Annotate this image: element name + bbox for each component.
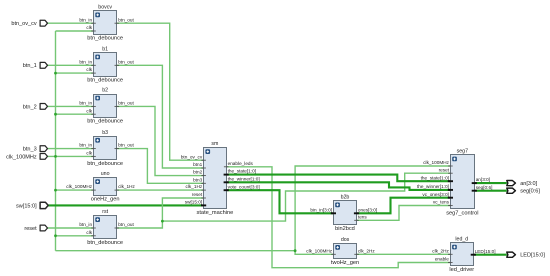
input port btn_ov_cv bbox=[11, 20, 47, 27]
svg-text:btn_debounce: btn_debounce bbox=[87, 77, 123, 83]
b3 pin btn_in bbox=[79, 143, 95, 149]
svg-text:btn_in: btn_in bbox=[79, 17, 92, 22]
svg-text:led_driver: led_driver bbox=[449, 267, 474, 273]
svg-text:btn_1: btn_1 bbox=[23, 63, 37, 69]
sm pin the_state[1:0] bbox=[224, 169, 256, 175]
input port clk_100MHz bbox=[6, 154, 47, 161]
svg-text:clk_2Hz: clk_2Hz bbox=[432, 248, 449, 253]
block dos (twoHz_gen) bbox=[334, 244, 357, 259]
seg7 pin the_winner[1:0] bbox=[417, 184, 453, 190]
svg-text:btn_in: btn_in bbox=[79, 101, 92, 106]
svg-text:an[3:0]: an[3:0] bbox=[520, 181, 537, 187]
svg-text:sw[15:0]: sw[15:0] bbox=[185, 200, 202, 205]
svg-text:btn_debounce: btn_debounce bbox=[87, 161, 123, 167]
svg-text:btn_out: btn_out bbox=[118, 101, 134, 106]
svg-text:LED[15:0]: LED[15:0] bbox=[520, 253, 545, 259]
rst expand icon bbox=[95, 217, 100, 222]
b3 pin clk bbox=[86, 151, 95, 157]
svg-text:b1: b1 bbox=[102, 46, 108, 52]
input port btn_1 bbox=[23, 62, 48, 69]
wire net btn_1: input port to b1 btn_in bbox=[48, 64, 94, 66]
bovcv pin btn_out bbox=[115, 17, 135, 23]
output port an[3:0] bbox=[507, 181, 538, 187]
svg-text:btn_debounce: btn_debounce bbox=[87, 119, 123, 125]
sm pin sw[15:0] bbox=[185, 200, 206, 206]
bus net LED[15:0]: led_d to output port bbox=[473, 254, 507, 256]
dos pin clk_100MHz bbox=[306, 248, 335, 254]
svg-text:rst: rst bbox=[102, 209, 108, 215]
svg-text:seg7_control: seg7_control bbox=[446, 210, 478, 216]
svg-text:btn_in: btn_in bbox=[79, 222, 92, 227]
sm pin the_winner[1:0] bbox=[224, 176, 260, 182]
b2b expand icon bbox=[335, 203, 340, 208]
block uno (oneHz_gen) bbox=[94, 178, 117, 196]
block led_d (led_driver) bbox=[451, 243, 474, 266]
wire net clk_100MHz: branch to b1 clk bbox=[56, 72, 94, 74]
block seg7 (seg7_control) bbox=[451, 155, 475, 209]
junction rst_out branch bbox=[161, 220, 164, 223]
junction clk_100MHz at seg7/dos riser bbox=[294, 249, 297, 252]
svg-text:btn_out: btn_out bbox=[118, 143, 134, 148]
svg-text:clk_1Hz: clk_1Hz bbox=[186, 184, 203, 189]
sm pin enable_leds bbox=[224, 161, 254, 167]
uno pin clk_1Hz bbox=[115, 184, 136, 190]
wire net b2_out: b2 btn_out to sm btn2 bbox=[117, 106, 204, 175]
led_d pin LED[15:0] bbox=[471, 249, 496, 255]
svg-text:clk_1Hz: clk_1Hz bbox=[118, 184, 135, 189]
b1 pin btn_out bbox=[115, 59, 135, 65]
b1 expand icon bbox=[95, 55, 100, 60]
bus net an[3:0]: seg7 to output port bbox=[474, 182, 507, 184]
svg-text:clk_100MHz: clk_100MHz bbox=[66, 184, 92, 189]
wire net clk_100MHz: branch to rst clk bbox=[56, 235, 94, 237]
svg-text:btn_in: btn_in bbox=[79, 59, 92, 64]
led_d pin clk_2Hz bbox=[432, 248, 452, 254]
bus net vote_count[3:0]: sm to b2b bin_in bbox=[226, 190, 333, 213]
wire net clk_100MHz: branch to b2 clk bbox=[56, 113, 94, 115]
svg-text:btn_ov_cv: btn_ov_cv bbox=[181, 154, 203, 159]
block b1 (btn_debounce) bbox=[94, 53, 117, 77]
uno pin clk_100MHz bbox=[66, 184, 95, 190]
wire net enable_leds: sm to led_d enable bbox=[226, 167, 450, 268]
svg-text:the_winner[1:0]: the_winner[1:0] bbox=[417, 184, 449, 189]
svg-text:btn3: btn3 bbox=[193, 177, 203, 182]
svg-text:btn_ov_cv: btn_ov_cv bbox=[11, 21, 37, 27]
block b2 (btn_debounce) bbox=[94, 95, 117, 118]
svg-text:the_state[1:0]: the_state[1:0] bbox=[421, 175, 449, 180]
svg-text:state_machine: state_machine bbox=[197, 210, 234, 216]
svg-text:sm: sm bbox=[211, 141, 219, 147]
wire net b1_out: b1 btn_out to sm btn1 bbox=[117, 65, 204, 168]
block sm (state_machine) bbox=[204, 148, 227, 209]
wire net clk_100MHz: vertical distribution trunk bbox=[55, 31, 57, 251]
block bovcv (btn_debounce) bbox=[94, 11, 117, 35]
b2b pin tens bbox=[354, 214, 367, 220]
svg-text:clk: clk bbox=[86, 25, 92, 30]
b3 pin btn_out bbox=[115, 143, 135, 149]
b1 pin btn_in bbox=[79, 59, 95, 65]
bus net seg[0:6]: seg7 to output port bbox=[474, 190, 507, 192]
bus net ones[3:0]: b2b to seg7 vc_ones bbox=[357, 198, 451, 214]
svg-text:vote_count[3:0]: vote_count[3:0] bbox=[228, 184, 260, 189]
svg-text:ones[3:0]: ones[3:0] bbox=[358, 207, 377, 212]
rst pin clk bbox=[86, 230, 95, 236]
sm pin reset bbox=[192, 192, 206, 198]
rst pin btn_in bbox=[79, 222, 95, 228]
svg-text:LED[15:0]: LED[15:0] bbox=[475, 249, 496, 254]
wire net clk_100MHz: port stub and b3 clk branch bbox=[48, 155, 94, 157]
input port reset bbox=[24, 225, 47, 232]
input port btn_3 bbox=[23, 146, 48, 153]
junction clk_100MHz at b1 clk bbox=[54, 72, 57, 75]
b2b pin ones[3:0] bbox=[354, 207, 377, 213]
dos expand icon bbox=[335, 245, 340, 250]
bovcv expand icon bbox=[95, 13, 100, 18]
svg-text:clk: clk bbox=[86, 230, 92, 235]
svg-text:clk: clk bbox=[86, 67, 92, 72]
svg-text:btn_out: btn_out bbox=[118, 222, 134, 227]
svg-text:bin_in[3:0]: bin_in[3:0] bbox=[310, 207, 332, 212]
svg-text:the_winner[1:0]: the_winner[1:0] bbox=[228, 176, 260, 181]
svg-text:sw[15:0]: sw[15:0] bbox=[16, 203, 37, 209]
svg-text:reset: reset bbox=[24, 226, 37, 232]
junction clk_100MHz at b2 clk bbox=[54, 113, 57, 116]
svg-text:reset: reset bbox=[439, 167, 450, 172]
bovcv pin btn_in bbox=[79, 17, 95, 23]
bus net the_winner[1:0]: sm to seg7 bbox=[226, 182, 450, 190]
b2 pin btn_out bbox=[115, 101, 135, 107]
b2b pin bin_in[3:0] bbox=[310, 207, 336, 213]
svg-text:btn_out: btn_out bbox=[118, 17, 134, 22]
svg-text:seg[0:6]: seg[0:6] bbox=[476, 185, 493, 190]
uno expand icon bbox=[95, 179, 100, 184]
seg7 pin reset bbox=[439, 167, 453, 173]
seg7 pin vc_ones[3:0] bbox=[422, 192, 453, 198]
svg-text:bin2bcd: bin2bcd bbox=[335, 226, 355, 232]
b2 expand icon bbox=[95, 96, 100, 101]
svg-text:an[3:0]: an[3:0] bbox=[476, 177, 490, 182]
svg-text:b2b: b2b bbox=[341, 194, 350, 200]
bus net sw[15:0]: input port to sm sw bbox=[48, 204, 204, 206]
svg-text:clk_100MHz: clk_100MHz bbox=[6, 154, 37, 160]
b1 pin clk bbox=[86, 67, 95, 73]
svg-text:btn_debounce: btn_debounce bbox=[87, 240, 123, 246]
svg-text:btn_debounce: btn_debounce bbox=[87, 35, 123, 41]
svg-text:uno: uno bbox=[101, 171, 110, 177]
wire net rst_out: rst btn_out up to sm reset bbox=[117, 198, 204, 228]
wire net reset: input port to rst btn_in bbox=[48, 227, 94, 229]
dos pin clk_2Hz bbox=[354, 248, 375, 254]
seg7 pin vc_tens bbox=[433, 200, 453, 206]
sm pin vote_count[3:0] bbox=[224, 184, 260, 190]
svg-text:bovcv: bovcv bbox=[98, 4, 112, 10]
svg-text:btn_out: btn_out bbox=[118, 59, 134, 64]
block rst (btn_debounce) bbox=[94, 216, 117, 239]
svg-text:vc_ones[3:0]: vc_ones[3:0] bbox=[422, 192, 449, 197]
svg-text:clk_100MHz: clk_100MHz bbox=[423, 160, 449, 165]
svg-text:seg[0:6]: seg[0:6] bbox=[520, 189, 540, 195]
b2 pin btn_in bbox=[79, 101, 95, 107]
sm pin btn3 bbox=[193, 177, 206, 183]
seg7 pin the_state[1:0] bbox=[421, 175, 453, 181]
led_d expand icon bbox=[452, 245, 457, 250]
wire net clk_1Hz: uno clk_1Hz to sm clk_1Hz bbox=[117, 189, 204, 191]
junction clk_100MHz at uno bbox=[54, 189, 57, 192]
svg-text:b2: b2 bbox=[102, 88, 108, 94]
svg-text:btn_in: btn_in bbox=[79, 143, 92, 148]
svg-text:clk_100MHz: clk_100MHz bbox=[306, 248, 332, 253]
wire net b3_out: b3 btn_out to sm btn3 bbox=[117, 149, 204, 184]
seg7 pin clk_100MHz bbox=[423, 160, 452, 166]
bovcv pin clk bbox=[86, 25, 95, 31]
input port sw[15:0] bbox=[16, 202, 48, 209]
bus net the_state[1:0]: sm to seg7 bbox=[226, 175, 450, 182]
svg-text:seg7: seg7 bbox=[457, 148, 468, 154]
sm pin btn1 bbox=[193, 162, 206, 168]
svg-text:clk: clk bbox=[86, 108, 92, 113]
svg-text:clk: clk bbox=[86, 151, 92, 156]
b2 pin clk bbox=[86, 108, 95, 114]
svg-text:enable: enable bbox=[435, 257, 449, 262]
block b3 (btn_debounce) bbox=[94, 137, 117, 160]
wire net btn_3: input port to b3 btn_in bbox=[48, 148, 94, 150]
seg7 pin seg[0:6] bbox=[472, 185, 493, 191]
svg-text:enable_leds: enable_leds bbox=[228, 161, 254, 166]
sm expand icon bbox=[205, 149, 210, 154]
wire net clk_100MHz: jog to dos clk_100MHz bbox=[295, 251, 333, 255]
svg-text:reset: reset bbox=[192, 192, 203, 197]
svg-text:oneHz_gen: oneHz_gen bbox=[91, 196, 120, 202]
wire net clk_100MHz: branch to uno clk_100MHz bbox=[56, 189, 94, 191]
output port seg[0:6] bbox=[507, 188, 541, 194]
seg7 expand icon bbox=[452, 157, 457, 162]
wire net clk_100MHz: branch to bovcv clk bbox=[56, 30, 94, 32]
wire net btn_ov_cv: input port to bovcv btn_in bbox=[48, 22, 94, 24]
wire net clk_100MHz: riser to seg7 clk_100MHz bbox=[295, 166, 450, 251]
output port LED[15:0] bbox=[507, 252, 546, 258]
rst pin btn_out bbox=[115, 222, 135, 228]
sm pin btn_ov_cv bbox=[181, 154, 206, 160]
input port btn_2 bbox=[23, 104, 48, 111]
junction clk_100MHz at b3/port row bbox=[54, 155, 57, 158]
b3 expand icon bbox=[95, 138, 100, 143]
wire net clk_2Hz: dos to led_d bbox=[357, 253, 451, 255]
svg-text:btn_2: btn_2 bbox=[23, 104, 37, 110]
led_d pin enable bbox=[435, 257, 453, 263]
sm pin clk_1Hz bbox=[186, 184, 206, 190]
wire net tens: b2b to seg7 vc_tens bbox=[357, 206, 451, 221]
svg-text:twoHz_gen: twoHz_gen bbox=[331, 260, 359, 266]
svg-text:led_d: led_d bbox=[455, 237, 468, 243]
svg-text:dos: dos bbox=[341, 237, 350, 243]
svg-text:btn2: btn2 bbox=[193, 170, 203, 175]
junction clk_100MHz at rst clk bbox=[54, 234, 57, 237]
wire net clk_100MHz: bottom run to riser bbox=[56, 250, 296, 252]
wire net rst_out: branch to seg7 reset bbox=[162, 173, 450, 221]
svg-text:tens: tens bbox=[358, 214, 368, 219]
svg-text:the_state[1:0]: the_state[1:0] bbox=[228, 169, 256, 174]
svg-text:btn_3: btn_3 bbox=[23, 146, 37, 152]
wire net bovcv_out: bovcv btn_out to sm btn_ov_cv bbox=[117, 23, 204, 160]
wire net btn_2: input port to b2 btn_in bbox=[48, 105, 94, 107]
svg-text:clk_2Hz: clk_2Hz bbox=[358, 248, 375, 253]
block b2b (bin2bcd) bbox=[334, 201, 357, 225]
svg-text:btn1: btn1 bbox=[193, 162, 203, 167]
svg-text:vc_tens: vc_tens bbox=[433, 200, 450, 205]
seg7 pin an[3:0] bbox=[472, 177, 490, 183]
sm pin btn2 bbox=[193, 170, 206, 176]
svg-text:b3: b3 bbox=[102, 130, 108, 136]
